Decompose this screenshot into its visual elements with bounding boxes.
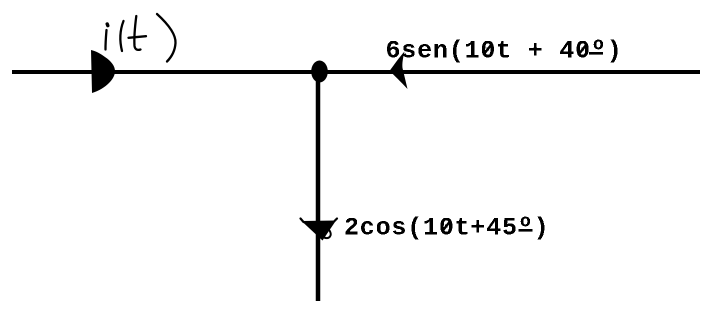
svg-text:2cos(10t+45º): 2cos(10t+45º) bbox=[344, 214, 549, 243]
label: 2cos(10t+45º) bbox=[344, 214, 549, 243]
wire: right horizontal segment bbox=[318, 70, 700, 74]
arrow: branch current pointing down bbox=[301, 219, 338, 241]
svg-text:6sen(10t + 40º): 6sen(10t + 40º) bbox=[386, 37, 623, 66]
label: i(t) handwritten bbox=[105, 14, 175, 62]
wire: left horizontal segment bbox=[12, 70, 318, 74]
arrow: current i(t) pointing right bbox=[91, 50, 115, 93]
label: 6sen(10t + 40º) bbox=[386, 37, 623, 66]
wire: vertical branch bbox=[316, 72, 321, 301]
arrow: 6sen source current pointing left bbox=[390, 52, 408, 90]
node: junction dot bbox=[311, 61, 328, 83]
